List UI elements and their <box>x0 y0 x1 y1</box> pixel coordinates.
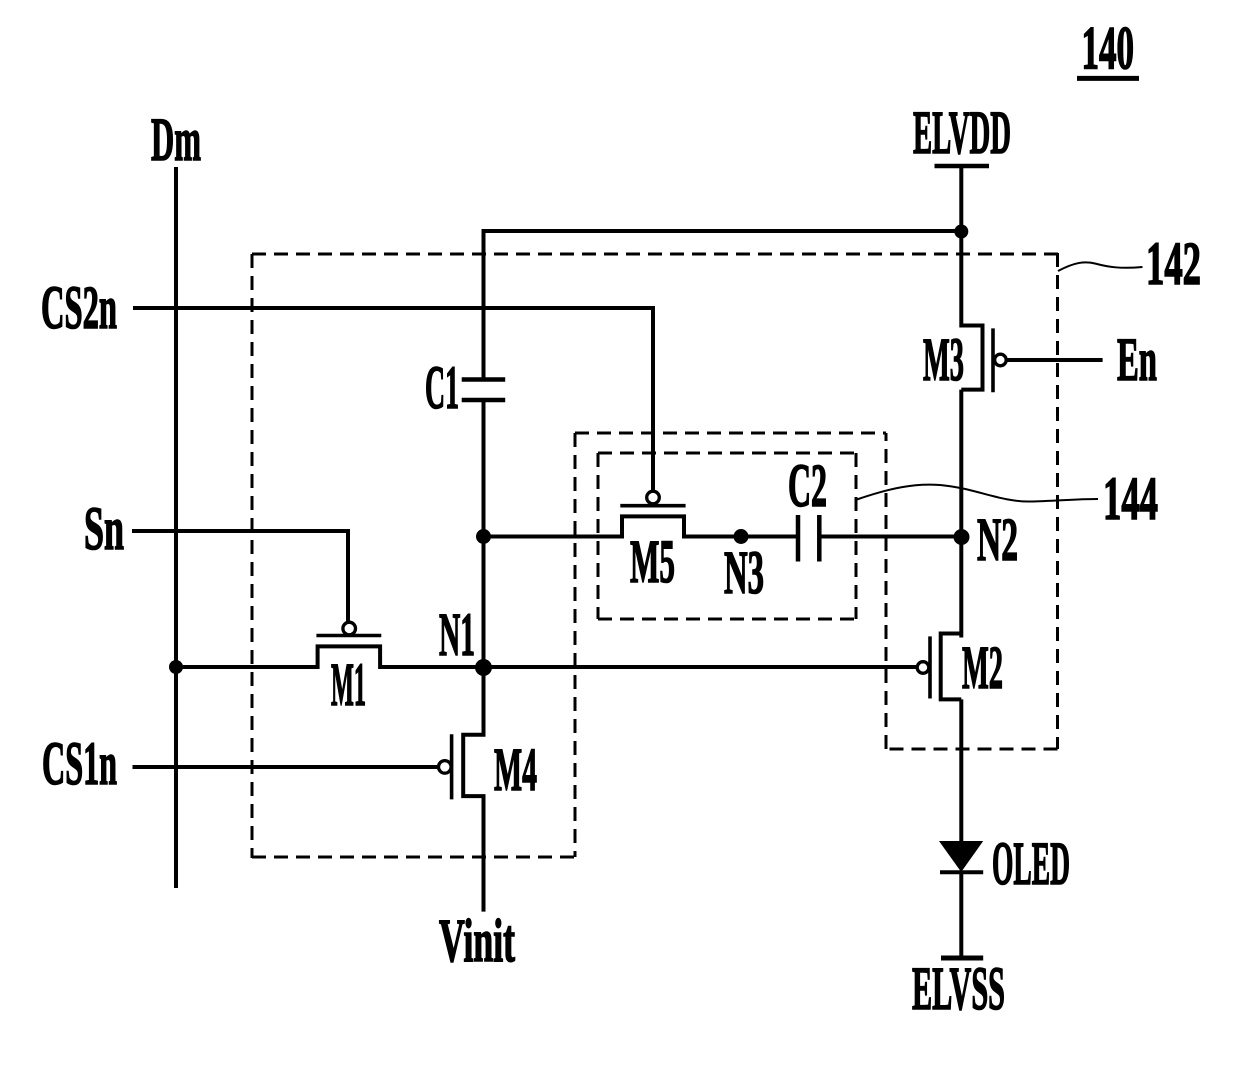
svg-text:En: En <box>1117 327 1157 394</box>
svg-text:ELVSS: ELVSS <box>912 956 1005 1023</box>
svg-text:M3: M3 <box>923 327 964 394</box>
svg-text:M4: M4 <box>494 737 537 804</box>
svg-text:C1: C1 <box>425 355 459 422</box>
svg-text:Sn: Sn <box>84 496 124 563</box>
svg-text:Vinit: Vinit <box>439 908 515 975</box>
svg-text:M2: M2 <box>962 635 1003 702</box>
svg-text:M5: M5 <box>630 529 675 596</box>
svg-text:N3: N3 <box>724 540 764 607</box>
svg-text:140: 140 <box>1082 16 1135 83</box>
svg-text:CS1n: CS1n <box>42 731 117 798</box>
svg-text:M1: M1 <box>331 652 366 719</box>
svg-text:CS2n: CS2n <box>41 275 117 342</box>
svg-text:OLED: OLED <box>992 831 1070 898</box>
svg-text:N1: N1 <box>439 602 475 669</box>
svg-text:142: 142 <box>1146 231 1201 298</box>
svg-text:Dm: Dm <box>151 107 201 174</box>
svg-text:C2: C2 <box>788 453 827 520</box>
svg-text:ELVDD: ELVDD <box>913 100 1011 167</box>
svg-text:N2: N2 <box>977 507 1018 574</box>
svg-text:144: 144 <box>1103 466 1158 533</box>
